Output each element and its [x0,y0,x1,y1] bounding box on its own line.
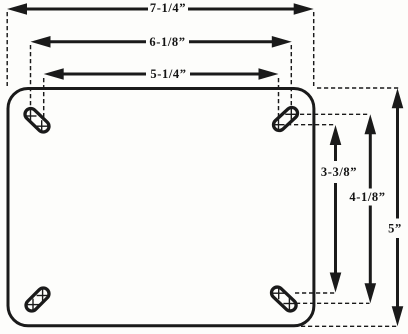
dimension line 7-1/4 [7,3,314,15]
extension line left plate edge (7-1/4) [6,12,8,86]
svg-text:3-3/8”: 3-3/8” [321,165,357,179]
dimension line 4-1/8 [365,114,377,303]
dimension line 5 [392,88,404,326]
svg-text:5-1/4”: 5-1/4” [150,67,186,81]
extension line bottom inner hole (3-3/8) [295,292,335,294]
extension line top outer hole (4-1/8) [293,113,370,115]
extension line left inner hole (5-1/4) [43,78,45,131]
svg-text:6-1/8”: 6-1/8” [149,35,185,49]
slot hole top-right [271,105,300,133]
slot hole bottom-left [24,286,52,314]
dimension line 5-1/4 [44,68,279,80]
svg-text:4-1/8”: 4-1/8” [349,190,385,204]
mounting plate outline [8,89,314,326]
cross top-right inner [273,119,285,131]
extension line plate top edge (5") [317,87,399,89]
extension line bottom outer hole (4-1/8) [296,302,370,304]
cross bottom-left inner [37,290,49,302]
cross top-right outer [285,108,297,120]
cross bottom-right outer [283,298,295,310]
extension line right outer hole (6-1/8) [290,45,292,121]
extension line left outer hole (6-1/8) [30,45,32,122]
cross bottom-right inner [273,287,285,299]
svg-text:7-1/4”: 7-1/4” [150,1,186,15]
cross top-left inner [36,120,48,132]
extension line right plate edge (7-1/4) [313,12,315,86]
cross top-left outer [25,110,37,122]
dimension line 3-3/8 [330,125,342,293]
slot hole top-left [23,106,52,134]
slot hole bottom-right [269,285,298,314]
dimension line 6-1/8 [31,36,292,48]
extension line top inner hole (3-3/8) [287,124,335,126]
svg-text:5”: 5” [388,221,402,235]
extension line plate bottom edge (5") [301,325,399,327]
extension line right inner hole (5-1/4) [278,78,280,130]
cross bottom-left outer [27,299,39,311]
